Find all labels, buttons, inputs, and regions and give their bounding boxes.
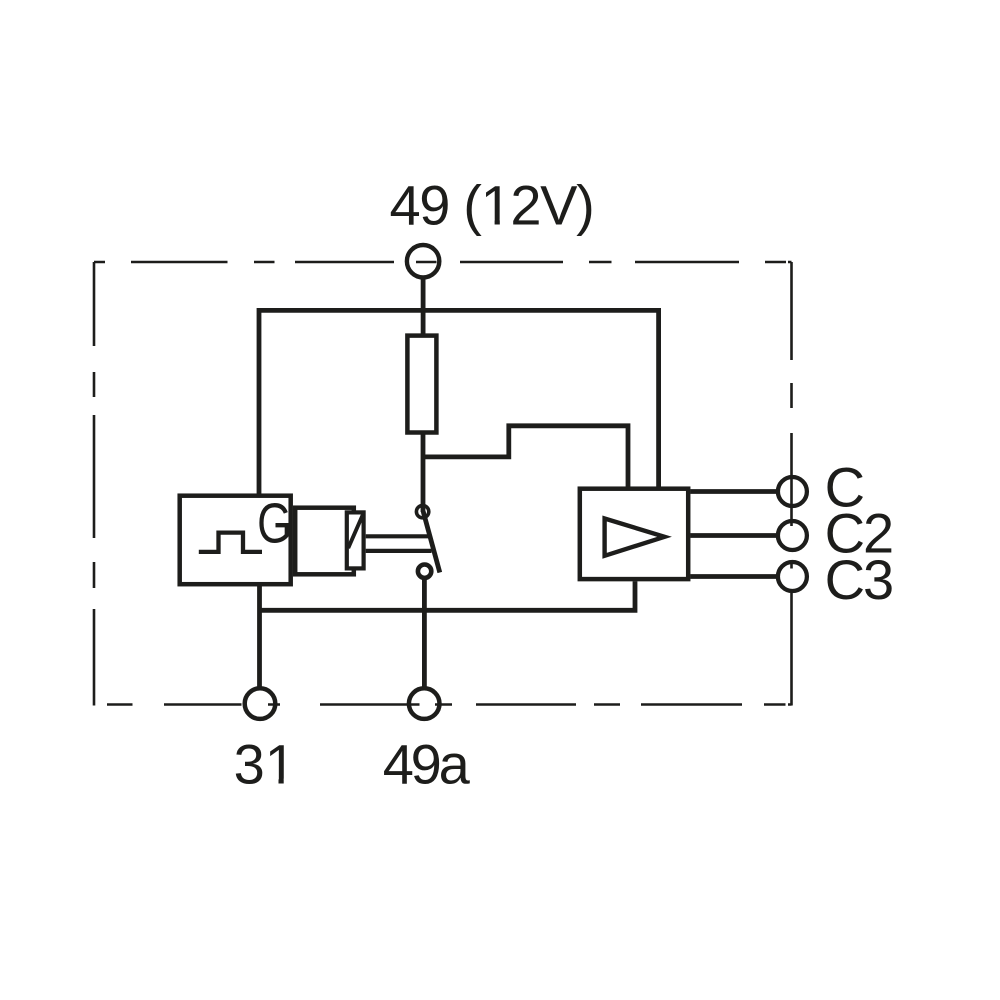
svg-text:49 (12V): 49 (12V) bbox=[390, 174, 594, 237]
terminal C bbox=[778, 477, 807, 506]
wire bbox=[423, 426, 628, 487]
svg-text:C3: C3 bbox=[825, 548, 893, 611]
border bottom bbox=[107, 703, 786, 706]
wire bbox=[690, 489, 776, 494]
terminal 31 bbox=[245, 688, 276, 719]
wire bbox=[260, 581, 636, 610]
dashed enclosure border bbox=[94, 262, 792, 706]
terminal C3 bbox=[778, 562, 807, 591]
border corner stubs bbox=[788, 262, 792, 705]
wire bbox=[421, 279, 426, 336]
switch pivot bbox=[416, 505, 428, 517]
relay armature element bbox=[347, 512, 364, 568]
resistor R bbox=[407, 336, 436, 433]
switch contact bbox=[418, 565, 431, 578]
linkage upper bbox=[366, 534, 429, 538]
wire bbox=[690, 533, 776, 538]
border top bbox=[94, 261, 786, 264]
linkage lower bbox=[366, 549, 432, 553]
wire bbox=[690, 574, 776, 579]
serif erasers for digit 1 bbox=[267, 220, 511, 786]
amplifier triangle bbox=[605, 519, 665, 556]
wire bbox=[257, 585, 262, 689]
wire bbox=[259, 310, 659, 493]
armature diagonal bbox=[348, 515, 363, 549]
wire bbox=[421, 429, 426, 512]
wire bbox=[422, 578, 427, 689]
switch blade bbox=[423, 512, 440, 573]
terminal 49a bbox=[409, 688, 440, 719]
relay coil body bbox=[295, 508, 354, 575]
pulse waveform symbol bbox=[199, 533, 262, 552]
border right bbox=[790, 262, 793, 706]
terminal C2 bbox=[778, 521, 807, 550]
terminal 49 bbox=[407, 245, 439, 277]
svg-text:49a: 49a bbox=[383, 733, 471, 796]
svg-text:31: 31 bbox=[234, 733, 296, 796]
amplifier box U bbox=[580, 489, 688, 579]
pulse generator G box bbox=[180, 496, 291, 585]
svg-text:G: G bbox=[257, 491, 292, 554]
border left bbox=[93, 262, 96, 706]
